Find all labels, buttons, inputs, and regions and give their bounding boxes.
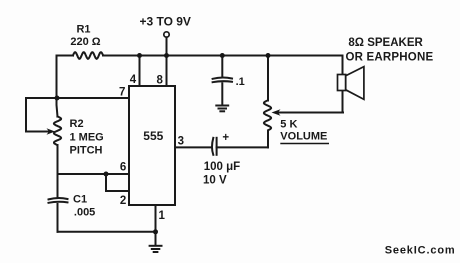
wire .1 cap to ground bbox=[221, 83, 223, 104]
svg-text:8Ω SPEAKER: 8Ω SPEAKER bbox=[348, 37, 423, 49]
svg-text:3: 3 bbox=[178, 136, 184, 148]
svg-text:R2: R2 bbox=[70, 118, 84, 130]
svg-text:555: 555 bbox=[143, 129, 163, 143]
wire ground rail bottom bbox=[58, 231, 156, 233]
ground symbol .1 cap bbox=[216, 106, 228, 112]
svg-text:.005: .005 bbox=[74, 206, 95, 218]
speaker cone bbox=[346, 67, 364, 100]
node junction rail/5K pot bbox=[266, 53, 271, 58]
wire pin8 from terminal bbox=[166, 37, 168, 86]
svg-text:5 K: 5 K bbox=[280, 119, 297, 131]
wire top rail left segment bbox=[57, 55, 74, 57]
capacitor 100uF plate straight bbox=[216, 138, 218, 155]
wire cap to pot bottom bbox=[217, 146, 268, 148]
svg-text:VOLUME: VOLUME bbox=[280, 131, 327, 143]
wire .1 cap drop bbox=[221, 56, 223, 78]
wire 5K pot bottom bbox=[267, 131, 269, 148]
svg-text:SeekIC.com: SeekIC.com bbox=[385, 245, 456, 257]
node junction R1/R2/pin7 bbox=[55, 96, 60, 101]
node junction rail/pin4 bbox=[137, 53, 142, 58]
wire 5K pot drop bbox=[267, 56, 269, 101]
capacitor .1 bbox=[213, 78, 232, 79]
svg-text:220 Ω: 220 Ω bbox=[70, 36, 100, 48]
svg-text:+: + bbox=[222, 132, 229, 144]
svg-text:100 μF: 100 μF bbox=[204, 161, 240, 173]
capacitor 100uF plate curved bbox=[212, 138, 213, 155]
node junction ground rail/pin1 bbox=[153, 229, 158, 234]
wire C1 bottom bbox=[57, 204, 59, 232]
wire top rail main segment bbox=[103, 55, 343, 57]
underline VOLUME bbox=[280, 143, 329, 145]
ground symbol main bbox=[150, 246, 162, 252]
svg-text:8: 8 bbox=[156, 75, 163, 87]
node junction rail/.1 cap bbox=[220, 53, 225, 58]
potentiometer R2 bbox=[54, 117, 61, 145]
svg-text:R1: R1 bbox=[76, 24, 90, 36]
power terminal +3 to 9V bbox=[164, 32, 169, 37]
wire speaker wiper line bbox=[278, 112, 343, 114]
speaker driver rectangle bbox=[338, 75, 346, 91]
svg-text:OR EARPHONE: OR EARPHONE bbox=[346, 51, 434, 63]
IC U1 555 timer box bbox=[129, 86, 175, 205]
potentiometer 5K volume bbox=[264, 101, 271, 131]
svg-text:2: 2 bbox=[120, 195, 126, 207]
wire pin3 output bbox=[175, 146, 211, 148]
wire R2 bottom to C1 bbox=[57, 145, 59, 197]
wire pin4 drop bbox=[139, 56, 141, 87]
svg-text:10 V: 10 V bbox=[203, 175, 227, 187]
node junction pin6/pin2 bbox=[104, 172, 109, 177]
svg-text:6: 6 bbox=[120, 162, 126, 174]
svg-text:1 MEG: 1 MEG bbox=[70, 132, 104, 144]
capacitor C1 bbox=[49, 198, 68, 199]
wire pin2 jog bbox=[106, 174, 129, 191]
wire pin6 from R2/C1 node to IC bbox=[58, 173, 130, 175]
svg-text:4: 4 bbox=[130, 74, 137, 86]
wiper arrowhead into 5K pot bbox=[272, 109, 281, 116]
wire R2 wiper arrow bbox=[26, 131, 48, 133]
svg-text:.1: .1 bbox=[236, 76, 245, 88]
svg-text:1: 1 bbox=[158, 210, 165, 222]
wire speaker right vertical bbox=[342, 56, 344, 75]
svg-text:+3 TO 9V: +3 TO 9V bbox=[139, 15, 190, 29]
svg-text:PITCH: PITCH bbox=[70, 145, 103, 157]
resistor R1 bbox=[73, 52, 103, 59]
wire pin7 from IC to left bbox=[26, 97, 129, 99]
wire left drop from R1 to R2 bbox=[57, 56, 58, 117]
wire left vertical to wiper bbox=[25, 98, 27, 132]
svg-text:7: 7 bbox=[119, 87, 125, 99]
node junction rail/pin8 bbox=[164, 53, 169, 58]
wire pin1 to ground bbox=[155, 205, 157, 245]
svg-text:C1: C1 bbox=[73, 193, 87, 205]
